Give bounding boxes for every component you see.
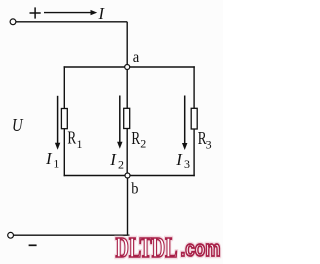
label R2 — [131, 128, 146, 151]
label R3 — [198, 128, 212, 152]
wire: stub from node b down — [127, 176, 129, 236]
terminal - (bottom left) — [8, 232, 14, 238]
label I3 — [175, 150, 190, 171]
svg-text:b: b — [131, 181, 138, 198]
wire: bottom bus b-level — [64, 175, 195, 177]
wire: middle branch upper — [126, 67, 128, 109]
svg-text:.com: .com — [181, 236, 221, 261]
label I1 — [45, 149, 59, 171]
wire: vertical drop from corner to node a — [126, 22, 128, 67]
svg-text:a: a — [133, 49, 140, 66]
label I2 — [109, 150, 124, 171]
svg-text:DLTDL: DLTDL — [116, 232, 178, 264]
wire: top bus a-level — [64, 66, 195, 68]
resistor R3 — [191, 108, 197, 129]
terminal + (top left) — [10, 19, 16, 25]
current arrow I — [44, 10, 97, 15]
node b — [125, 173, 130, 178]
svg-text:R: R — [67, 128, 76, 148]
svg-text:3: 3 — [206, 137, 212, 151]
svg-text:U: U — [12, 115, 23, 135]
node a — [125, 65, 130, 70]
wire: left branch upper — [63, 66, 65, 109]
svg-text:R: R — [131, 128, 140, 148]
current arrow I2 — [117, 96, 122, 149]
wire: middle branch lower — [126, 128, 128, 175]
svg-text:2: 2 — [140, 136, 146, 150]
label R1 — [67, 128, 82, 151]
current arrow I3 — [182, 96, 187, 151]
wire: left branch lower — [63, 129, 65, 177]
svg-text:1: 1 — [53, 156, 59, 170]
plus sign — [30, 7, 41, 18]
resistor R1 — [61, 109, 67, 129]
svg-text:2: 2 — [118, 157, 124, 171]
current arrow I1 — [55, 96, 60, 150]
minus sign — [29, 244, 37, 246]
wire: bottom lead from - terminal — [14, 234, 130, 236]
watermark DLTDL.com — [116, 232, 221, 264]
wire: right branch lower — [193, 129, 195, 176]
svg-text:3: 3 — [184, 157, 190, 171]
wire: top lead from + terminal to corner — [16, 21, 127, 23]
resistor R2 — [124, 108, 130, 128]
wire: right branch upper — [193, 66, 195, 109]
svg-text:1: 1 — [77, 137, 83, 151]
